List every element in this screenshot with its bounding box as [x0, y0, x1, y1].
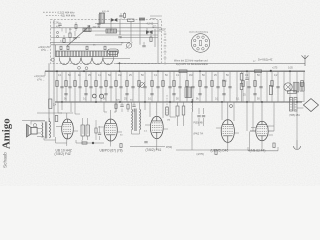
wire tuner internal extra	[95, 24, 158, 59]
wire cathode bus segments	[76, 143, 278, 151]
capacitor C43	[125, 94, 128, 95]
coil L8	[191, 99, 194, 112]
capacitor C19	[156, 87, 159, 88]
capacitor C52	[58, 24, 61, 25]
capacitor C27a	[259, 87, 262, 88]
junction bus B+	[246, 70, 248, 72]
wire box left internals	[51, 22, 81, 38]
resistor R34	[127, 105, 129, 110]
capacitor C45	[172, 94, 175, 95]
antenna	[302, 55, 309, 66]
wire tuner vertical	[99, 14, 158, 63]
resistor R36	[273, 143, 275, 148]
wire speaker top leads	[22, 113, 62, 121]
junction chassis	[119, 101, 121, 103]
wire V1 cathode	[56, 137, 77, 143]
tube V2 UCH11	[104, 119, 117, 141]
trimmer capacitor C5	[126, 43, 131, 48]
bus B+ line	[45, 70, 305, 72]
trimmer capacitor C27	[140, 83, 145, 88]
resistor R26	[215, 150, 217, 155]
capacitor C44	[150, 94, 153, 95]
wire IFT2 leads	[132, 102, 140, 134]
switch contact circles	[78, 66, 81, 69]
resistor R20 on bus	[179, 70, 187, 73]
resistor R31	[63, 39, 65, 43]
capacitor C29	[202, 116, 205, 117]
resistor R27 dropper	[269, 86, 272, 95]
junction bus B+	[119, 70, 121, 72]
trimmer C8	[86, 46, 88, 49]
resistor R50	[288, 91, 297, 94]
resistor R4	[65, 81, 67, 87]
wire tuner comp leads	[64, 28, 151, 45]
capacitor C18	[143, 87, 146, 88]
resistor R13	[162, 81, 164, 87]
oscillator coil L2	[108, 49, 119, 55]
resistor R32	[150, 37, 152, 42]
resistor R43	[124, 14, 126, 18]
tube V3 UBF11	[150, 116, 163, 138]
resistor R41	[240, 84, 243, 90]
capacitor C21	[178, 87, 181, 88]
resistor R10	[126, 81, 128, 87]
wire output leads	[222, 102, 274, 131]
tube V1 UCH11	[62, 119, 74, 139]
resistor R18	[223, 81, 225, 87]
capacitor C32	[73, 38, 76, 39]
wire IFT2 top leads	[116, 102, 134, 112]
junction chassis	[296, 101, 298, 103]
capacitor C22	[191, 87, 194, 88]
resistor R19	[242, 81, 244, 87]
junction bus B+	[199, 70, 201, 72]
antenna coil L1 (hatched)	[99, 13, 104, 23]
rectifier plate line V5	[250, 130, 274, 132]
trimmer C7	[67, 46, 69, 49]
trimmer C9	[104, 46, 106, 49]
leader line	[43, 12, 59, 15]
capacitor C17	[131, 87, 134, 88]
shield line (dashed)	[165, 28, 167, 117]
resistor R5	[74, 81, 76, 87]
switch contact S1	[56, 31, 58, 33]
wire tube anode leads	[61, 102, 262, 121]
capacitor C12	[78, 87, 81, 88]
resistor R30	[69, 33, 71, 38]
capacitor C37	[132, 105, 135, 106]
resistor R21a	[271, 81, 273, 87]
bus AVC line	[116, 62, 305, 64]
potentiometer P1	[166, 107, 169, 115]
wire to ground	[296, 111, 298, 140]
resistor R6	[85, 81, 87, 87]
resistor R22	[176, 106, 179, 116]
wire right column	[242, 71, 248, 102]
resistor R25	[120, 144, 122, 148]
wire tube cathode leads	[67, 138, 262, 148]
junction chassis	[169, 101, 171, 103]
wire AVC tie	[45, 63, 120, 76]
wire vertical drops	[57, 71, 304, 102]
resistor R44	[75, 25, 77, 29]
resistor R1	[128, 19, 135, 22]
capacitor C23	[204, 87, 207, 88]
resistor R12	[151, 81, 153, 87]
resistor R16	[199, 81, 201, 87]
capacitor C20	[168, 87, 171, 88]
trimmer C55	[230, 105, 233, 108]
wire speaker leads	[31, 118, 56, 140]
coil L7 (hatched)	[185, 87, 192, 98]
IF transformer T2 core	[106, 29, 117, 33]
capacitor C42	[104, 94, 107, 95]
resistor R17	[211, 81, 213, 87]
capacitor C50	[245, 78, 248, 79]
resistor R22a	[301, 81, 303, 87]
tuning gang link	[67, 26, 91, 47]
capacitor C10	[60, 87, 63, 88]
junction bus B+	[289, 70, 291, 72]
dial lamp	[284, 83, 292, 91]
capacitor C15	[109, 87, 112, 88]
tube V4 UCL11	[221, 120, 234, 143]
capacitor C25a	[228, 87, 231, 88]
output transformer T3	[42, 123, 43, 138]
capacitor variable C3 arrows	[146, 30, 153, 34]
capacitor C35	[142, 46, 145, 47]
switch contact S2	[56, 35, 58, 37]
capacitor C36	[120, 105, 123, 106]
loudspeaker diamond	[303, 99, 318, 112]
ground	[294, 140, 301, 150]
capacitor C48	[253, 94, 256, 95]
IF transformer T1 core	[83, 28, 91, 32]
resistor R9	[115, 81, 117, 87]
resistor R21 on bus	[255, 70, 262, 73]
resistor R35	[95, 128, 97, 133]
resistor R2	[49, 99, 52, 109]
resistor R7	[95, 81, 97, 87]
field coil T4	[290, 98, 293, 112]
wire tuner internal	[51, 28, 162, 45]
electrolytic capacitor C26	[99, 94, 103, 98]
choke L10	[300, 83, 304, 92]
capacitor C26a	[247, 87, 250, 88]
capacitor C47	[222, 94, 225, 95]
bus chassis line	[55, 101, 302, 103]
wire V3-V4 section	[170, 99, 204, 150]
capacitor C14	[99, 87, 102, 88]
junction chassis	[191, 101, 193, 103]
capacitor C16	[119, 87, 122, 88]
choke L9	[293, 82, 299, 92]
resistor R40	[240, 74, 243, 81]
junction bus B+	[157, 70, 159, 72]
junction chassis	[144, 101, 146, 103]
switch wiper	[51, 58, 54, 61]
capacitor C24	[216, 87, 219, 88]
capacitor C28a	[276, 87, 279, 88]
capacitor variable C1 arrows	[111, 18, 118, 22]
capacitor C38	[98, 133, 101, 134]
resistor R24 cathode	[82, 142, 87, 144]
wire top row	[121, 12, 162, 20]
tick marks	[164, 34, 167, 58]
junction chassis	[95, 101, 97, 103]
junction chassis	[221, 101, 223, 103]
resistor R3	[56, 81, 58, 87]
junction chassis	[261, 101, 263, 103]
capacitor C41	[84, 94, 87, 95]
capacitor C30 blob	[92, 142, 94, 144]
resistor R23	[182, 106, 185, 115]
IF transformer IFT2	[132, 109, 133, 130]
resistor R42	[55, 116, 58, 122]
wire IFT1 leads	[83, 118, 88, 140]
resistor R15	[186, 81, 188, 87]
capacitor C46	[198, 94, 201, 95]
wire diamond leads	[297, 102, 303, 109]
resistor R14	[173, 81, 175, 87]
capacitor C28	[197, 116, 200, 117]
capacitor C11	[68, 87, 71, 88]
junction chassis	[61, 101, 63, 103]
junction bus B+	[270, 70, 272, 72]
capacitor C34	[118, 37, 121, 38]
resistor R20a	[254, 81, 256, 87]
wire mains	[228, 147, 278, 151]
hum coil	[33, 124, 36, 127]
waveband switch block	[56, 51, 118, 57]
wire coil taps	[59, 57, 113, 58]
junction chassis	[246, 101, 248, 103]
wire	[67, 140, 157, 150]
wire tube grid leads	[58, 102, 116, 114]
wire	[58, 113, 100, 140]
loudspeaker LS	[27, 124, 31, 137]
tube socket top view	[191, 34, 210, 53]
coil set L3-L6	[59, 58, 113, 65]
trimmer C6	[60, 46, 62, 49]
junction bus	[270, 70, 272, 72]
shield box (dashed)	[51, 20, 162, 64]
capacitor C33	[97, 24, 100, 25]
capacitor C13	[89, 87, 92, 88]
junction AVC	[119, 62, 121, 64]
junction bus B+	[56, 70, 58, 72]
transistor-style blob (coil core)	[139, 18, 145, 21]
capacitor C51	[119, 16, 122, 17]
capacitor C31	[144, 142, 147, 143]
resistor R33	[115, 104, 117, 109]
wire	[145, 102, 256, 150]
wire left verticals	[49, 20, 56, 137]
IF transformer IFT1	[81, 125, 84, 136]
junction bus B+	[83, 70, 85, 72]
resistor R11	[138, 81, 140, 87]
wire tube side leads	[56, 125, 273, 135]
electrolytic capacitor C25	[92, 94, 96, 98]
tube V5 UY11	[256, 121, 268, 141]
capacitor C40	[64, 94, 67, 95]
resistor R8	[105, 81, 107, 87]
